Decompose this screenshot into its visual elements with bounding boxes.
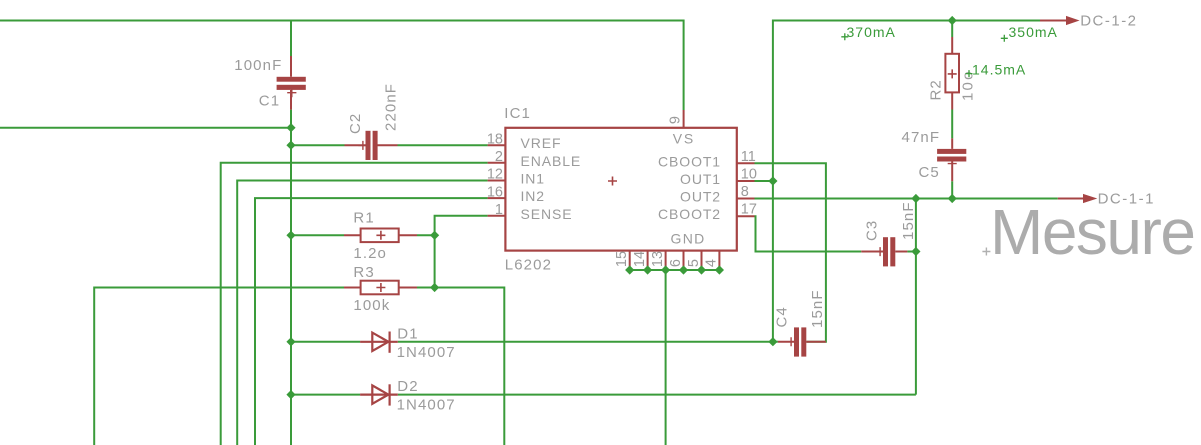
- svg-text:OUT1: OUT1: [680, 171, 721, 187]
- svg-text:1.2o: 1.2o: [353, 245, 387, 262]
- svg-text:R2: R2: [928, 79, 945, 100]
- junction GND pin 13: [661, 265, 670, 274]
- svg-text:13: 13: [650, 251, 666, 267]
- svg-text:18: 18: [487, 131, 503, 147]
- junction GND pin 5: [697, 265, 706, 274]
- svg-text:17: 17: [741, 202, 757, 218]
- svg-text:IN2: IN2: [521, 188, 546, 204]
- junction R1 right: [430, 231, 439, 240]
- svg-text:16: 16: [487, 184, 503, 200]
- svg-text:1N4007: 1N4007: [397, 397, 456, 414]
- wire OUT1 stub: [755, 180, 773, 182]
- svg-text:12: 12: [487, 167, 503, 183]
- junction C3 right: [911, 247, 920, 256]
- wire R2 C5 chain: [951, 21, 953, 199]
- svg-text:VREF: VREF: [521, 135, 562, 151]
- junction GND pin 15: [625, 265, 634, 274]
- svg-text:11: 11: [741, 149, 756, 165]
- capacitor C3: [861, 237, 916, 266]
- svg-text:C2: C2: [347, 113, 364, 134]
- junction R3 right: [430, 283, 439, 292]
- svg-text:220nF: 220nF: [383, 83, 400, 131]
- wire top supply to VS: [0, 21, 684, 111]
- junction OUT2: [911, 194, 920, 203]
- svg-text:15nF: 15nF: [900, 201, 917, 240]
- svg-text:1: 1: [495, 202, 503, 218]
- svg-text:DC-1-2: DC-1-2: [1080, 12, 1137, 29]
- wire VREF to pin 18: [291, 144, 488, 146]
- svg-text:Mesure: Mesure: [990, 196, 1194, 268]
- svg-text:ENABLE: ENABLE: [521, 153, 582, 169]
- annotation 370mA: [841, 24, 896, 40]
- wire IN1: [237, 181, 487, 445]
- wire CBOOT2 to C3: [755, 216, 862, 251]
- wire VREF vertical bus x=291: [290, 110, 292, 445]
- IC1 VS pin 9: [683, 110, 685, 128]
- wire D1 row: [291, 341, 773, 343]
- junction D2 left: [286, 390, 295, 399]
- svg-text:14: 14: [632, 251, 648, 267]
- svg-text:350mA: 350mA: [1009, 24, 1058, 40]
- svg-text:10: 10: [741, 167, 757, 183]
- wire IN2: [255, 198, 488, 445]
- svg-text:VS: VS: [673, 130, 695, 146]
- capacitor C2: [345, 131, 398, 160]
- wire R3 row right: [417, 288, 504, 445]
- svg-text:IC1: IC1: [504, 105, 531, 122]
- svg-text:C5: C5: [919, 164, 940, 181]
- wire OUT2 to DC-1-1: [755, 198, 1058, 200]
- annotation 14.5mA: [966, 62, 1027, 78]
- wire SENSE to R1/R3: [435, 216, 488, 288]
- capacitor C5: [937, 138, 966, 181]
- diode D1: [360, 332, 398, 353]
- svg-text:14.5mA: 14.5mA: [972, 62, 1026, 78]
- resistor R3: [344, 281, 417, 295]
- wire DC-1-2 top right: [773, 21, 1040, 342]
- svg-text:1N4007: 1N4007: [397, 344, 456, 361]
- resistor R2: [945, 37, 959, 110]
- svg-text:SENSE: SENSE: [521, 206, 573, 222]
- wire left horizontal to C1 bottom node: [0, 127, 291, 129]
- svg-text:2: 2: [495, 149, 503, 165]
- junction GND pin 4: [715, 265, 724, 274]
- svg-text:8: 8: [741, 184, 749, 200]
- svg-text:CBOOT1: CBOOT1: [658, 153, 721, 169]
- svg-text:9: 9: [667, 116, 683, 124]
- svg-text:C3: C3: [864, 220, 881, 241]
- wire C1 top lead to supply: [290, 21, 292, 57]
- IC1 L6202 box: [505, 128, 736, 251]
- svg-text:D2: D2: [397, 378, 418, 395]
- junction GND pin 6: [679, 265, 688, 274]
- wire GND bus under IC: [630, 270, 720, 445]
- DC-1-2 flag arrow: [1040, 16, 1080, 25]
- DC-1-1 flag arrow: [1058, 194, 1098, 203]
- junction OUT1: [768, 176, 777, 185]
- svg-text:GND: GND: [671, 231, 706, 247]
- junction GND pin 14: [643, 265, 652, 274]
- svg-text:370mA: 370mA: [847, 24, 896, 40]
- junction C4 left: [768, 337, 777, 346]
- junction R1 left: [286, 231, 295, 240]
- annotation Mesure: [982, 196, 1194, 268]
- svg-text:15: 15: [614, 251, 630, 267]
- junction D1 left: [286, 337, 295, 346]
- svg-text:CBOOT2: CBOOT2: [658, 206, 721, 222]
- IC1 GND pins 15 14 13 6 5 4: [630, 251, 720, 270]
- wire D2 row to OUT2: [291, 199, 916, 395]
- svg-text:100k: 100k: [353, 297, 390, 314]
- svg-text:6: 6: [668, 259, 684, 267]
- capacitor C4: [773, 327, 826, 356]
- IC1 left pins 18 2 12 16 1: [488, 145, 505, 216]
- wire ENABLE: [221, 163, 488, 445]
- svg-text:100nF: 100nF: [234, 57, 282, 74]
- svg-text:5: 5: [686, 259, 702, 267]
- junction VREF node: [286, 141, 295, 150]
- junction R2 top: [948, 16, 957, 25]
- svg-text:OUT2: OUT2: [680, 189, 721, 205]
- diode D2: [360, 384, 398, 405]
- svg-text:R1: R1: [353, 210, 374, 227]
- wire R3 row left: [94, 288, 344, 445]
- wire R1 row: [291, 234, 435, 236]
- wire CBOOT1 to C4: [755, 163, 826, 341]
- capacitor C1: [277, 56, 306, 110]
- resistor R1: [344, 229, 417, 243]
- svg-text:C4: C4: [774, 306, 791, 327]
- annotation 350mA: [1001, 24, 1058, 42]
- svg-text:15nF: 15nF: [809, 289, 826, 328]
- svg-text:L6202: L6202: [505, 257, 552, 274]
- svg-text:47nF: 47nF: [902, 129, 941, 146]
- IC1 right pins 11 10 8 17: [737, 163, 755, 216]
- svg-text:D1: D1: [397, 326, 418, 343]
- junction C1 bottom node: [286, 123, 295, 132]
- svg-text:4: 4: [704, 259, 720, 267]
- svg-text:R3: R3: [353, 264, 374, 281]
- svg-text:IN1: IN1: [521, 171, 546, 187]
- svg-text:C1: C1: [259, 93, 280, 110]
- junction C5 bottom: [948, 194, 957, 203]
